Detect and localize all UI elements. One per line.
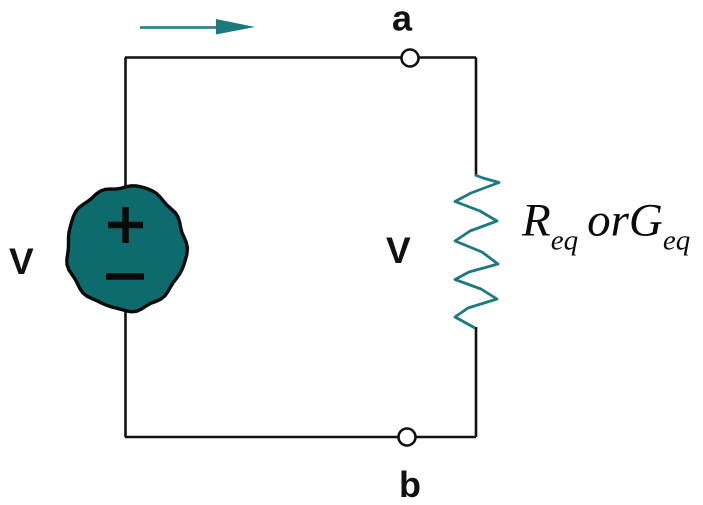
voltage source V1: [67, 186, 187, 312]
plus sign: [108, 207, 143, 243]
node b terminal circle: [399, 429, 416, 446]
svg-text:V: V: [9, 241, 34, 282]
svg-text:ReqorGeq: ReqorGeq: [521, 195, 690, 257]
svg-text:a: a: [392, 0, 413, 39]
node a terminal circle: [402, 50, 419, 67]
wire bottom horizontal: [125, 436, 476, 439]
minus sign: [106, 273, 144, 280]
wire left vertical: [124, 58, 127, 438]
svg-text:V: V: [386, 230, 411, 271]
wire top horizontal: [125, 56, 476, 59]
wire right vertical bottom segment: [475, 327, 478, 437]
wire right vertical top segment: [475, 58, 478, 177]
current arrow: [140, 19, 255, 35]
resistor Req zigzag: [455, 175, 499, 328]
svg-text:b: b: [399, 464, 421, 500]
